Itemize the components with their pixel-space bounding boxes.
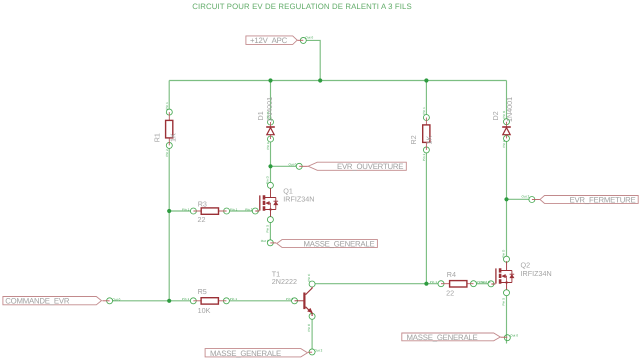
svg-text:Pin K: Pin K — [502, 111, 506, 119]
svg-text:D1: D1 — [256, 111, 265, 120]
junction commande row — [167, 299, 171, 303]
svg-text:Mod G: Mod G — [481, 280, 491, 284]
svg-text:Out 0: Out 0 — [289, 162, 297, 166]
svg-text:EVR_OUVERTURE: EVR_OUVERTURE — [337, 162, 403, 171]
pin circle R5 right — [223, 298, 229, 304]
flag +12V_APC outline — [246, 36, 297, 45]
diode D1 — [266, 127, 275, 135]
svg-text:R1: R1 — [152, 133, 161, 142]
svg-text:Out 0: Out 0 — [113, 297, 121, 301]
flag EVR_OUVERTURE outline — [308, 162, 406, 170]
pin lead EVR_FERMETURE flag — [532, 199, 540, 201]
pin circle EVR_FERMETURE flag — [529, 197, 535, 203]
junction bus D1 — [268, 78, 272, 82]
svg-text:Pin 2: Pin 2 — [422, 153, 426, 161]
pin circle R1 top — [166, 109, 172, 115]
svg-text:Pin 1: Pin 1 — [430, 280, 438, 284]
pin leads R5 — [193, 300, 226, 302]
svg-text:R3: R3 — [198, 200, 207, 209]
svg-text:22: 22 — [198, 215, 206, 224]
svg-text:1K: 1K — [169, 133, 178, 142]
pin circle D1 anode — [268, 136, 274, 142]
svg-text:Pin A: Pin A — [502, 140, 506, 148]
svg-text:Pin 1: Pin 1 — [182, 297, 190, 301]
svg-text:R4: R4 — [447, 270, 456, 279]
svg-text:IRFIZ34N: IRFIZ34N — [283, 194, 314, 203]
pin leads D2 — [506, 122, 508, 139]
pin circle D2 anode — [504, 135, 510, 141]
flag MASSE_GENERALE Q1 outline — [277, 240, 378, 248]
svg-text:Out 0: Out 0 — [305, 36, 313, 40]
svg-text:Pin 1: Pin 1 — [230, 297, 238, 301]
wire R3 row left — [169, 210, 190, 212]
svg-text:MASSE_GENERALE: MASSE_GENERALE — [407, 333, 478, 342]
pin lead EVR_OUVERTURE flag — [299, 165, 308, 167]
resistor R3 body — [201, 208, 218, 214]
svg-text:MASSE_GENERALE: MASSE_GENERALE — [210, 349, 281, 358]
wire EVR_FERMETURE branch — [507, 198, 530, 200]
flag EVR_FERMETURE outline — [540, 196, 638, 204]
pin circle R3 right — [224, 208, 230, 214]
wire D2 bottom to Q2 drain — [506, 141, 508, 256]
pin circle MASSE Q2 flag — [504, 335, 510, 341]
pin circle Q2 gate — [488, 281, 494, 287]
svg-text:Pin D: Pin D — [266, 175, 270, 184]
wire left column R1 bottom to commande row — [168, 148, 170, 301]
junction R3 row — [167, 209, 171, 213]
svg-text:+12V_APC: +12V_APC — [250, 36, 288, 45]
pin leads R3 — [193, 210, 226, 212]
wire T1 collector row — [315, 283, 438, 285]
transistor Q2 MOSFET — [491, 261, 514, 289]
svg-text:Pin S: Pin S — [266, 225, 270, 233]
wire R5 to T1 base — [229, 300, 292, 302]
pin circle MASSE Q1 flag — [267, 240, 273, 246]
svg-text:Pin 2: Pin 2 — [286, 297, 294, 301]
svg-text:1N4001: 1N4001 — [505, 97, 514, 122]
pin circle Q1 source — [267, 217, 273, 223]
svg-text:Out 2: Out 2 — [522, 195, 530, 199]
junction bus +12V — [318, 78, 322, 82]
pin circle R2 top — [423, 115, 429, 121]
pin leads R1 — [168, 112, 170, 145]
wire D1 top — [270, 81, 272, 120]
resistor R4 body — [450, 281, 467, 287]
resistor R5 body — [201, 298, 218, 304]
svg-text:2N2222: 2N2222 — [272, 277, 297, 286]
pin circle +12V flag — [300, 37, 306, 43]
wire R4 to Q2 gate — [476, 283, 488, 285]
junction EVR_FERMETURE — [504, 197, 508, 201]
svg-text:Pin 1: Pin 1 — [230, 207, 238, 211]
svg-text:1K: 1K — [425, 136, 434, 145]
junction EVR_OUVERTURE — [268, 164, 272, 168]
pin lead MASSE Q2 flag — [501, 336, 508, 338]
wire commande row left — [112, 300, 190, 302]
pin lead MASSE T1 flag — [308, 351, 312, 353]
pin circle T1 base — [292, 298, 298, 304]
svg-text:Out 2: Out 2 — [261, 239, 269, 243]
pin circle R2 bottom — [423, 147, 429, 153]
wire +12V feed — [306, 40, 320, 80]
svg-text:22: 22 — [446, 288, 454, 297]
svg-text:D2: D2 — [491, 111, 500, 120]
resistor R1 body — [166, 120, 173, 137]
svg-text:Pin S: Pin S — [502, 298, 506, 306]
wire T1 emitter down — [311, 319, 313, 349]
wire D1 bottom to Q1 drain — [270, 142, 272, 183]
svg-text:R5: R5 — [198, 287, 207, 296]
svg-text:10K: 10K — [198, 306, 211, 315]
wire R3 row to Q1 gate — [229, 210, 252, 212]
pin lead COMMANDE_EVR flag — [102, 300, 109, 302]
transistor Q1 MOSFET — [255, 188, 278, 216]
pin leads R4 — [441, 283, 474, 285]
pin lead MASSE Q1 flag — [270, 242, 276, 244]
pin circle Q2 source — [504, 290, 510, 296]
pin circle R4 right — [471, 281, 477, 287]
flag MASSE_GENERALE Q2 outline — [402, 333, 501, 341]
transistor T1 NPN — [295, 287, 313, 316]
pin circle R5 left — [190, 298, 196, 304]
pin leads D1 — [270, 122, 272, 139]
flag COMMANDE_EVR outline — [3, 297, 102, 305]
wire Q2 source to masse — [506, 296, 508, 344]
svg-text:Pin D: Pin D — [502, 249, 506, 258]
pin circle R4 left — [438, 281, 444, 287]
svg-text:Pin 1: Pin 1 — [422, 107, 426, 115]
pin circle D2 cathode — [504, 119, 510, 125]
junction R4 row — [424, 282, 428, 286]
svg-text:Pin 2: Pin 2 — [165, 149, 169, 157]
resistor R2 body — [423, 125, 430, 142]
pin circle T1 collector — [309, 281, 315, 287]
pin circle T1 emitter — [309, 313, 315, 319]
wire EVR_OUVERTURE branch — [271, 165, 297, 167]
svg-text:Pin K: Pin K — [266, 111, 270, 119]
pin circle MASSE T1 flag — [309, 349, 315, 355]
pin lead +12V flag — [297, 39, 303, 41]
svg-text:EVR_FERMETURE: EVR_FERMETURE — [569, 195, 635, 204]
wire left column R1 top — [168, 81, 170, 110]
pin circle Q1 drain — [267, 182, 273, 188]
svg-text:CIRCUIT POUR EV DE REGULATION: CIRCUIT POUR EV DE REGULATION DE RALENTI… — [192, 2, 412, 11]
svg-text:Pin C: Pin C — [307, 273, 311, 282]
wire top +12V bus — [169, 80, 506, 82]
svg-text:Pin E: Pin E — [307, 324, 311, 332]
flag MASSE_GENERALE T1 outline — [205, 349, 307, 357]
pin leads R2 — [425, 118, 427, 150]
diode D2 — [502, 127, 511, 135]
svg-text:MASSE_GENERALE: MASSE_GENERALE — [303, 239, 374, 248]
svg-text:Out 0: Out 0 — [510, 334, 518, 338]
wire R2 top — [425, 81, 427, 115]
junction bus R2 — [424, 78, 428, 82]
pin circle R1 bottom — [166, 142, 172, 148]
svg-text:R2: R2 — [409, 135, 418, 144]
wire Q1 source to masse — [269, 222, 271, 240]
svg-text:Pin 2: Pin 2 — [245, 207, 253, 211]
svg-text:Pin 1: Pin 1 — [165, 102, 169, 110]
svg-text:Pin 1: Pin 1 — [182, 207, 190, 211]
pin circle D1 cathode — [268, 119, 274, 125]
svg-text:IRFIZ34N: IRFIZ34N — [521, 269, 552, 278]
svg-text:COMMANDE_EVR: COMMANDE_EVR — [5, 297, 70, 306]
pin circle COMMANDE_EVR flag — [107, 298, 113, 304]
svg-text:Out 2: Out 2 — [315, 348, 323, 352]
pin circle EVR_OUVERTURE flag — [296, 163, 302, 169]
pin circle Q2 drain — [504, 256, 510, 262]
wire R2 bottom to junction — [425, 153, 427, 284]
wire D2 top — [506, 81, 508, 119]
title — [192, 2, 412, 11]
pin circle Q1 gate — [252, 208, 258, 214]
svg-text:Pin A: Pin A — [266, 142, 270, 150]
pin circle R3 left — [190, 208, 196, 214]
